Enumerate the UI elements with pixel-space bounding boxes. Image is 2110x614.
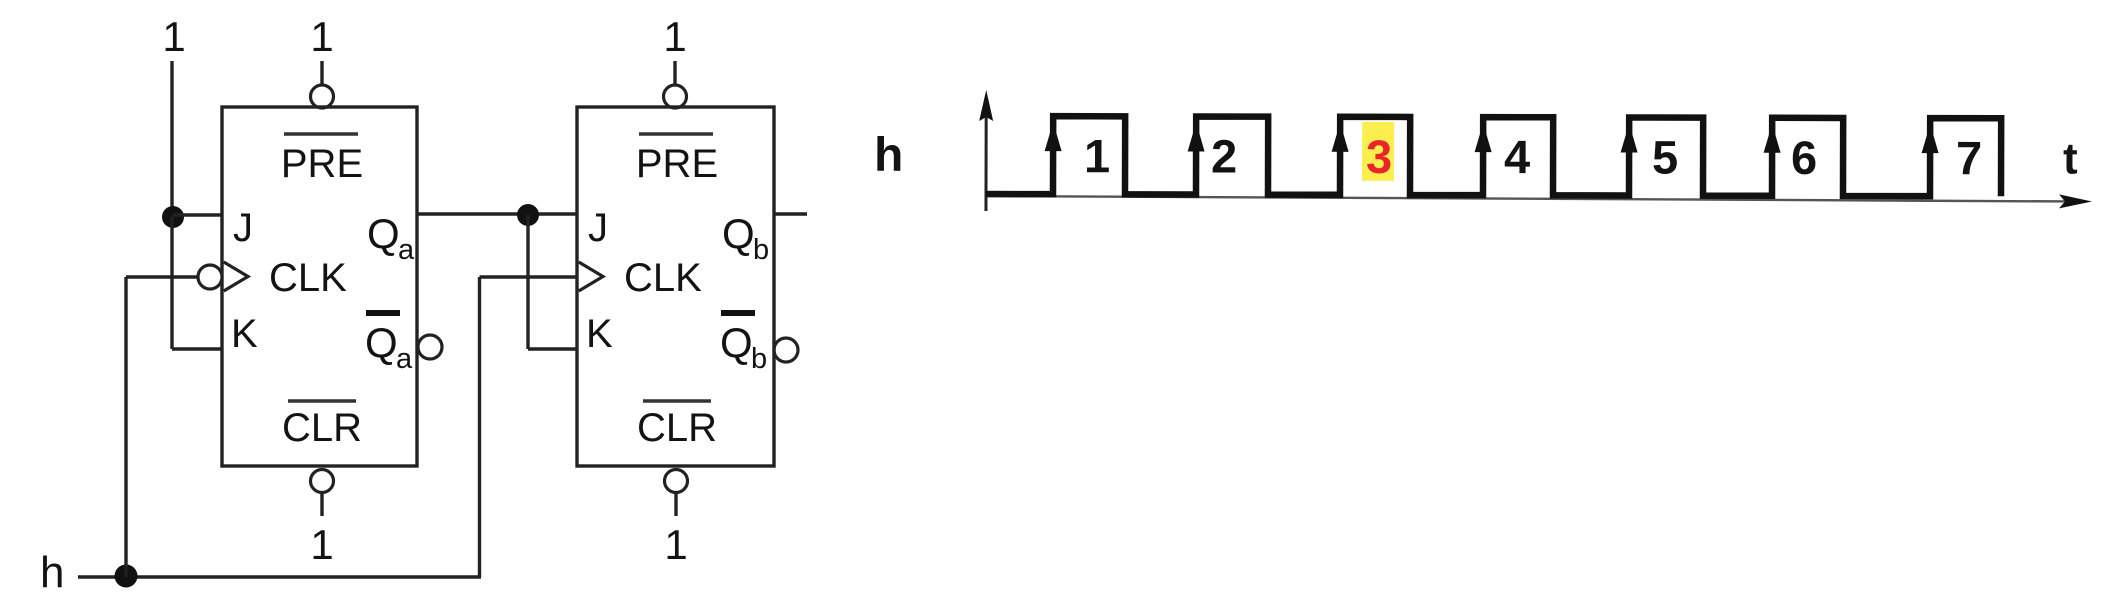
svg-text:b: b	[753, 234, 769, 266]
svg-text:a: a	[398, 234, 415, 266]
svg-text:CLK: CLK	[624, 256, 702, 300]
pin bubble Qb-bar of U2	[774, 338, 798, 362]
wire Qa output of U1 to J of U2	[417, 212, 577, 215]
wire K input of U2	[528, 347, 577, 350]
rising edge arrow pulse 7	[1922, 124, 1939, 153]
svg-text:1: 1	[663, 13, 686, 60]
svg-text:K: K	[231, 312, 258, 356]
wire vertical from net 1 to J/K junction	[170, 61, 173, 218]
rising edge arrow pulse 2	[1188, 122, 1205, 151]
overline of CLR label U1	[288, 399, 356, 403]
svg-text:K: K	[586, 312, 613, 356]
vertical axis	[984, 104, 987, 211]
wire h up to CLK of U1	[124, 277, 127, 577]
svg-text:Q: Q	[720, 319, 753, 366]
svg-text:t: t	[2063, 134, 2078, 183]
svg-text:6: 6	[1791, 131, 1817, 184]
node junction dot J/K of U1	[162, 206, 184, 228]
node junction dot on h wire	[115, 565, 138, 588]
svg-text:4: 4	[1504, 130, 1530, 183]
clock inversion bubble of U1	[198, 265, 222, 289]
svg-text:7: 7	[1956, 131, 1982, 184]
highlight behind pulse number 3	[1362, 122, 1394, 181]
svg-text:Q: Q	[365, 319, 398, 366]
wire CLK input of U1	[126, 275, 198, 278]
vertical axis arrowhead	[979, 90, 993, 121]
svg-text:J: J	[233, 206, 253, 250]
pin bubble CLR of U2	[665, 470, 688, 493]
time axis	[986, 196, 2074, 201]
overline of CLR label U2	[643, 399, 711, 403]
svg-text:1: 1	[664, 521, 687, 568]
svg-text:J: J	[588, 206, 608, 250]
svg-text:2: 2	[1211, 130, 1237, 183]
rising edge arrow pulse 1	[1045, 122, 1062, 151]
wire K input of U1	[172, 347, 222, 350]
svg-text:1: 1	[162, 13, 185, 60]
svg-text:PRE: PRE	[636, 142, 718, 186]
svg-text:Q: Q	[722, 210, 755, 257]
rising edge arrow pulse 5	[1621, 123, 1638, 152]
svg-text:a: a	[396, 343, 413, 375]
svg-text:1: 1	[1084, 129, 1110, 182]
wire CLR of U1	[320, 493, 323, 516]
pin bubble CLR of U1	[311, 470, 334, 493]
clock edge triangle of U1	[224, 262, 248, 291]
wire h bus horizontal	[78, 575, 481, 578]
pin bubble PRE of U1	[311, 85, 334, 108]
svg-text:PRE: PRE	[281, 142, 363, 186]
svg-text:Q: Q	[367, 210, 400, 257]
wire CLK input of U2	[480, 275, 578, 278]
wire PRE of U2	[673, 61, 676, 85]
wire vertical junction down to K of U2	[526, 215, 529, 349]
svg-text:CLR: CLR	[282, 406, 362, 450]
wire J input of U1	[173, 213, 222, 216]
clock edge triangle of U2	[579, 262, 603, 291]
flip-flop U1 body	[222, 107, 417, 466]
svg-text:3: 3	[1366, 130, 1392, 183]
svg-text:CLR: CLR	[637, 406, 717, 450]
pin bubble Qa-bar of U1	[418, 335, 442, 359]
pin bubble PRE of U2	[664, 85, 687, 108]
rising edge arrow pulse 6	[1764, 124, 1781, 153]
wire Qb output stub of U2	[774, 212, 807, 215]
wire h up to CLK of U2	[478, 277, 481, 577]
svg-text:5: 5	[1652, 131, 1678, 184]
rising edge arrow pulse 3	[1332, 123, 1349, 152]
svg-text:CLK: CLK	[269, 256, 347, 300]
svg-text:1: 1	[310, 13, 333, 60]
node junction dot J/K of U2	[517, 204, 539, 226]
svg-text:1: 1	[310, 521, 333, 568]
svg-text:h: h	[874, 129, 903, 182]
wire PRE of U1	[320, 61, 323, 85]
rising edge arrow pulse 4	[1475, 123, 1492, 152]
wire vertical junction down to K of U1	[170, 217, 173, 349]
overline of PRE label U1	[284, 132, 358, 136]
svg-text:h: h	[40, 548, 64, 597]
clock waveform h	[986, 116, 2001, 196]
flip-flop U2 body	[577, 107, 774, 466]
wire CLR of U2	[674, 493, 677, 516]
time axis arrowhead	[2059, 194, 2092, 208]
overline of PRE label U2	[639, 132, 713, 136]
svg-text:b: b	[751, 343, 767, 375]
